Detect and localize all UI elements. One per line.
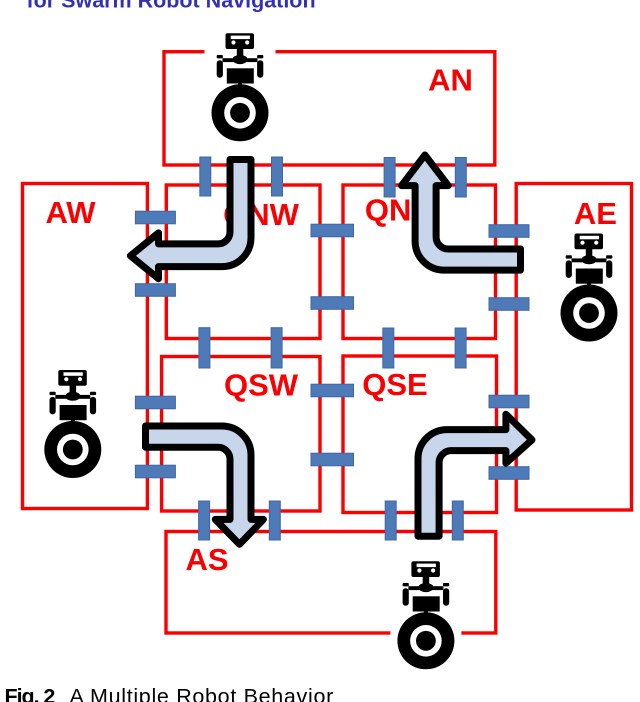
svg-text:for Swarm Robot Navigation: for Swarm Robot Navigation (27, 0, 316, 13)
svg-text:QSW: QSW (224, 367, 299, 402)
svg-text:AN: AN (428, 63, 473, 98)
svg-text:AW: AW (46, 195, 97, 230)
svg-text:QSE: QSE (362, 367, 427, 402)
svg-text:Fig. 2A Multiple Robot Behavio: Fig. 2A Multiple Robot Behavior (5, 684, 334, 702)
svg-text:AE: AE (574, 196, 617, 231)
svg-text:AS: AS (185, 542, 228, 577)
